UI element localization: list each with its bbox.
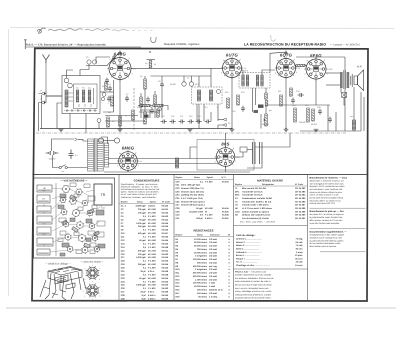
HT bus — [40, 128, 232, 130]
TS primary — [340, 72, 343, 88]
svg-text:vant la longueur de l’aéri: vant la longueur de l’aérien dont vous — [310, 182, 344, 185]
svg-text:5: 5 — [107, 73, 108, 76]
table rule left — [118, 175, 120, 301]
chassis part P5 — [37, 227, 51, 235]
svg-text:pot: pot — [269, 109, 272, 112]
chassis part D3 — [72, 227, 79, 233]
svg-text:CH 04.088: CH 04.088 — [295, 207, 306, 210]
switch contacts row — [66, 110, 96, 112]
chassis part Q13 — [98, 244, 105, 248]
wire MF2 drop 1 — [252, 88, 254, 112]
wire ant return — [41, 95, 43, 129]
wire V4 cathode — [315, 79, 317, 105]
chassis socket S11 — [89, 222, 96, 229]
wire screen row — [105, 120, 145, 122]
svg-text:P 1.500: P 1.500 — [148, 229, 156, 232]
svg-text:05.042: 05.042 — [162, 253, 169, 256]
svg-text:C4: C4 — [108, 83, 110, 86]
svg-text:H.-P. 21 cm excit. 1.800 ohms: H.-P. 21 cm excit. 1.800 ohms — [242, 207, 273, 210]
svg-text:5: 5 — [215, 161, 216, 164]
antenna terminal A — [39, 92, 45, 95]
svg-text:R14: R14 — [292, 104, 295, 107]
svg-text:2x8 µF: 2x8 µF — [196, 217, 203, 220]
svg-text:Bloc accord OC-PO-GO: Bloc accord OC-PO-GO — [242, 187, 266, 190]
table rule 4 — [307, 175, 309, 301]
svg-text:35 corr.: 35 corr. — [295, 257, 303, 260]
svg-text:CAD: CAD — [235, 210, 240, 213]
resistor R13 volume — [265, 114, 268, 126]
svg-text:3: 3 — [129, 57, 130, 60]
svg-text:25 µF: 25 µF — [140, 291, 146, 294]
svg-text:1 watt: 1 watt — [209, 285, 215, 288]
svg-text:V5: V5 — [140, 160, 142, 163]
svg-text:CH 04.087: CH 04.087 — [295, 204, 306, 207]
svg-text:Repère: Repère — [121, 200, 129, 203]
wire plate line — [131, 67, 223, 69]
band switch dashes — [64, 110, 97, 112]
svg-text:CH 04.089: CH 04.089 — [295, 210, 306, 213]
svg-text:3: 3 — [135, 151, 136, 154]
svg-text:dition phono, ramener le C: dition phono, ramener le CV au mini- — [310, 219, 344, 222]
page top edge — [10, 27, 394, 30]
svg-text:M 1.500: M 1.500 — [148, 232, 157, 235]
svg-text:5.000 µµF: 5.000 µµF — [136, 256, 146, 259]
svg-text:05.048: 05.048 — [162, 273, 169, 276]
wire V1 cathode drop — [119, 80, 121, 129]
chassis part Q11 — [97, 221, 105, 226]
wire r17 out — [163, 106, 168, 111]
wire rect output — [235, 152, 243, 157]
svg-text:05.044: 05.044 — [222, 207, 229, 210]
svg-text:Coût du câblage :: Coût du câblage : — [236, 234, 256, 237]
capacitor C4 — [108, 86, 112, 92]
chassis socket S12 — [64, 233, 71, 241]
junction — [119, 128, 120, 129]
svg-text:05.042: 05.042 — [162, 211, 169, 214]
svg-text:padding PO-GO s/bloc: padding PO-GO s/bloc — [181, 194, 205, 197]
svg-text:C15: C15 — [241, 91, 244, 94]
resistor R24 — [296, 64, 305, 66]
svg-text:Antenne 1 ....................: Antenne 1 ........................ — [236, 238, 262, 241]
wire MF1 avc tap — [217, 104, 219, 121]
chassis part Q22 — [86, 238, 91, 242]
svg-text:1/2 watt: 1/2 watt — [209, 268, 217, 271]
svg-text:M: M — [205, 210, 207, 213]
wire field coil lead — [353, 87, 355, 120]
svg-text:05.048: 05.048 — [222, 214, 229, 217]
wire lamps link — [104, 140, 115, 142]
chassis part Q25 — [60, 253, 65, 256]
svg-text:Spécif.: Spécif. — [150, 200, 157, 203]
svg-text:C10: C10 — [171, 115, 174, 118]
chassis part P6 — [37, 238, 53, 246]
chassis part D2 — [88, 209, 95, 214]
table rule 2 — [173, 175, 175, 301]
svg-text:05.049: 05.049 — [162, 270, 169, 273]
svg-text:TR: TR — [101, 193, 106, 197]
svg-text:10 volt.: 10 volt. — [296, 261, 304, 264]
svg-text:P 1.500: P 1.500 — [148, 215, 156, 218]
svg-text:M 1.500: M 1.500 — [148, 256, 157, 259]
junction — [285, 128, 286, 129]
svg-text:TA: TA — [235, 200, 238, 203]
resistor R19 — [312, 109, 315, 121]
wire heater line 1 — [108, 158, 218, 160]
wire coil to bus — [69, 114, 71, 129]
svg-text:R15: R15 — [305, 104, 308, 107]
wire B+ top — [296, 56, 345, 58]
rule under note3 — [320, 251, 366, 253]
wire osc link — [139, 111, 160, 113]
svg-text:atten. 490 µµF (C1): atten. 490 µµF (C1) — [181, 184, 200, 187]
svg-text:Spécif.: Spécif. — [207, 176, 214, 179]
wire V3 drop — [285, 78, 287, 129]
svg-text:1/2 watt: 1/2 watt — [209, 241, 217, 244]
svg-text:6U7G: 6U7G — [226, 52, 239, 57]
svg-text:CH 04.083: CH 04.083 — [295, 190, 306, 193]
svg-text:N° Code: N° Code — [162, 200, 171, 203]
svg-text:CV: CV — [42, 198, 46, 201]
svg-text:V6: V6 — [237, 156, 239, 159]
switch Int — [59, 165, 67, 169]
svg-text:1/2 watt: 1/2 watt — [209, 255, 217, 258]
coil L2b winding — [82, 90, 85, 102]
chassis part Q16 — [58, 205, 64, 209]
chassis part P2 — [37, 195, 50, 203]
svg-text:4: 4 — [296, 71, 297, 74]
coil field coil — [352, 120, 355, 130]
svg-text:4 amp.: 4 amp. — [296, 251, 303, 254]
wire coil to chassis — [85, 114, 87, 134]
ground — [230, 129, 235, 131]
svg-text:5.000 µµF: 5.000 µµF — [136, 284, 146, 287]
wire B+ right — [344, 57, 346, 131]
svg-text:50 µµF: 50 µµF — [139, 218, 146, 221]
svg-text:C16: C16 — [232, 110, 235, 113]
svg-text:de nos services techniques: de nos services techniques contre — [310, 242, 342, 245]
svg-text:M 1.500: M 1.500 — [148, 211, 157, 214]
svg-text:CAD: CAD — [101, 207, 106, 210]
chassis part P7 — [37, 249, 50, 255]
svg-text:trimmer 3/30 (bloc T1): trimmer 3/30 (bloc T1) — [181, 187, 204, 190]
resistor R12 — [290, 88, 293, 97]
wire grid return — [103, 80, 114, 112]
svg-text:Valeur: Valeur — [137, 200, 143, 203]
svg-text:8 µF: 8 µF — [142, 294, 147, 297]
svg-text:p: p — [102, 291, 103, 293]
chassis socket S1 — [62, 185, 71, 193]
wire choke out — [247, 149, 253, 151]
wire r22 top — [140, 93, 142, 97]
resistor R16 — [140, 104, 150, 106]
page left edge — [8, 29, 10, 296]
ground — [118, 129, 123, 131]
svg-text:05.045: 05.045 — [162, 256, 169, 259]
svg-text:quées. Toutes les valeurs sont: quées. Toutes les valeurs sont données — [121, 191, 159, 194]
svg-text:1/2 watt: 1/2 watt — [209, 248, 217, 251]
svg-text:05.044: 05.044 — [162, 239, 169, 242]
capacitor C18 — [291, 98, 295, 104]
capacitor C27 — [150, 108, 154, 114]
svg-text:Repère: Repère — [235, 183, 243, 186]
svg-text:Masse 3 ......................: Masse 3 ........................ — [236, 244, 260, 247]
svg-text:8: 8 — [307, 60, 308, 63]
svg-text:05.045: 05.045 — [162, 284, 169, 287]
svg-text:05.043: 05.043 — [162, 236, 169, 239]
junction T — [44, 102, 45, 103]
wire r23 top — [154, 91, 156, 95]
svg-text:E 550 v.: E 550 v. — [205, 217, 213, 220]
wire field tail — [353, 130, 355, 131]
IF transformer MF1 — [192, 87, 223, 104]
wire r20-r21 — [265, 99, 267, 101]
svg-text:R11: R11 — [278, 90, 281, 93]
chassis part P4 — [37, 216, 52, 224]
wire V6 to return — [225, 166, 227, 172]
svg-text:Valeur: Valeur — [197, 233, 203, 236]
svg-text:T1: T1 — [43, 244, 45, 247]
svg-text:Spécifications : P, papier, au: Spécifications : P, papier, aux tensions — [121, 183, 158, 186]
svg-text:— Lampes — N° 3/DV/7L0: — Lampes — N° 3/DV/7L0 — [330, 43, 361, 46]
svg-text:Maquette CHAREL, Ingénieur: Maquette CHAREL, Ingénieur — [164, 43, 200, 46]
power transformer TA core — [95, 138, 96, 172]
svg-text:0,1 P 1.500 (par. C14): 0,1 P 1.500 (par. C14) — [181, 197, 203, 200]
svg-text:05.043: 05.043 — [162, 287, 169, 290]
resistor R3 — [132, 110, 135, 120]
trimmer CT7 — [182, 82, 186, 86]
chassis socket S6 — [60, 208, 68, 215]
coil MF1 primary — [197, 90, 200, 101]
svg-text:CH 04.082: CH 04.082 — [295, 187, 306, 190]
svg-text:C11: C11 — [180, 115, 183, 118]
svg-text:R4: R4 — [145, 62, 147, 65]
svg-text:3: 3 — [233, 147, 234, 150]
svg-text:100 µµF: 100 µµF — [138, 211, 147, 214]
wire top cap V1 — [119, 51, 121, 55]
svg-text:MF2: MF2 — [42, 233, 46, 236]
svg-text:CONDENSATEURS: CONDENSATEURS — [134, 178, 160, 182]
wire MF2 in — [242, 70, 244, 75]
chassis part D4 — [62, 220, 68, 225]
svg-text:4: 4 — [132, 73, 133, 76]
junction — [231, 128, 232, 129]
svg-text:2 mégohms: 2 mégohms — [195, 268, 208, 271]
socket view V6 culot — [86, 284, 100, 298]
tube V2 6U7G — [221, 52, 246, 79]
svg-text:C14: C14 — [204, 106, 207, 109]
PU jack 2 — [223, 124, 226, 127]
chassis line — [36, 132, 346, 134]
svg-text:3: 3 — [294, 58, 295, 61]
resistor R15 — [307, 108, 310, 122]
wave trap L3 — [86, 60, 98, 66]
svg-text:100 µµF: 100 µµF — [138, 253, 147, 256]
wire TS low — [326, 84, 340, 86]
wire r24 to v4 — [305, 65, 307, 67]
svg-text:1/2 watt: 1/2 watt — [209, 261, 217, 264]
wire MF1 return — [203, 104, 205, 121]
svg-text:— VUE INTÉRIEURE —: — VUE INTÉRIEURE — — [60, 179, 88, 183]
dial lamp LP2 — [114, 138, 119, 143]
chassis part P1 — [37, 185, 52, 192]
wire antenna lead — [44, 91, 46, 94]
svg-text:MF1: MF1 — [195, 83, 199, 86]
svg-text:6M6G: 6M6G — [122, 146, 135, 151]
svg-text:110/220: 110/220 — [49, 158, 56, 161]
chassis socket S13 — [78, 234, 86, 243]
svg-text:05.040: 05.040 — [162, 205, 169, 208]
svg-text:P 1.500: P 1.500 — [205, 214, 213, 217]
wire heater drop — [190, 147, 197, 159]
svg-text:05.047: 05.047 — [162, 232, 169, 235]
svg-text:400 ohms: 400 ohms — [197, 289, 208, 292]
chassis part Q19 — [70, 218, 75, 222]
svg-text:300 ohms: 300 ohms — [197, 261, 208, 264]
svg-text:ANT.2, et reliez la borne: ANT.2, et reliez la borne T à une — [310, 194, 340, 197]
wire ct1 top — [67, 70, 74, 78]
capacitor C5 — [107, 96, 111, 102]
svg-text:trimmer MF1 (2x ajust.): trimmer MF1 (2x ajust.) — [181, 200, 205, 203]
svg-text:W: W — [228, 233, 230, 236]
TA primary winding — [88, 139, 94, 171]
resistor R7 — [119, 116, 122, 126]
R4 top bar — [147, 59, 156, 61]
resistor R10 — [227, 98, 230, 108]
diode load blob — [258, 105, 264, 108]
svg-text:P 1.500: P 1.500 — [148, 260, 156, 263]
resistor R23 — [154, 95, 157, 104]
svg-text:M 1.500: M 1.500 — [148, 263, 157, 266]
svg-text:8 µF: 8 µF — [142, 297, 147, 300]
capacitor C20 — [318, 109, 322, 115]
capacitor C14b — [205, 120, 211, 124]
chassis part Q14 — [70, 183, 76, 187]
wire trap tap — [80, 64, 89, 75]
svg-text:les prises PU. Le volume: les prises PU. Le volume se règle par — [310, 213, 344, 216]
svg-text:Repère: Repère — [176, 176, 184, 179]
svg-text:N° Code: N° Code — [295, 183, 304, 186]
pot wiper — [263, 119, 265, 121]
svg-text:Transfo MF 472 kc/s: Transfo MF 472 kc/s — [242, 190, 263, 193]
svg-text:30 ohms: 30 ohms — [198, 295, 208, 298]
svg-text:CH 04.084: CH 04.084 — [295, 194, 306, 197]
wire ct7 lead — [183, 76, 185, 82]
chassis socket S2 — [75, 188, 83, 195]
svg-text:C12: C12 — [189, 115, 192, 118]
wire spk return 2 — [363, 97, 365, 131]
svg-text:Int.: Int. — [62, 170, 65, 173]
svg-text:8: 8 — [217, 148, 218, 151]
svg-text:Documentation supplémentaire.: Documentation supplémentaire. — — [310, 231, 348, 234]
top cap V1 — [119, 52, 121, 54]
chassis part Q9 — [74, 194, 79, 197]
chassis wiring lines — [50, 188, 103, 252]
svg-text:bobinée 10 w.: bobinée 10 w. — [209, 289, 223, 292]
svg-text:150 ohms: 150 ohms — [197, 292, 208, 295]
resistor R11 — [280, 95, 283, 106]
wire TS tail — [340, 88, 342, 93]
chassis socket S9 — [63, 220, 70, 227]
tone cap C30 — [342, 93, 347, 98]
chassis socket S15 — [66, 245, 73, 253]
tube V5 6M6G — [117, 146, 142, 172]
svg-text:13 pièc.: 13 pièc. — [295, 254, 303, 257]
coil MF2 secondary b — [261, 75, 263, 86]
svg-text:R8: R8 — [150, 106, 152, 109]
capacitor C9 padder — [161, 120, 167, 124]
TA secondary winding — [97, 139, 103, 171]
svg-text:05.041: 05.041 — [162, 249, 169, 252]
resistor R21 — [265, 101, 268, 107]
svg-text:Condensateur variable 2x490: Condensateur variable 2x490 — [242, 197, 273, 200]
chassis socket S7 — [72, 209, 81, 218]
wire padder feed — [140, 110, 150, 118]
rule above tables — [32, 174, 367, 176]
wire heater line 2 — [108, 163, 218, 165]
svg-text:MATÉRIEL DIVERS: MATÉRIEL DIVERS — [257, 179, 283, 183]
svg-text:250 µµF: 250 µµF — [138, 263, 147, 266]
svg-text:8: 8 — [277, 59, 278, 62]
svg-text:aux adresses habituelles. Préc: aux adresses habituelles. Préciser lors … — [235, 277, 274, 280]
capacitor C8 — [160, 82, 164, 88]
svg-text:50.000 ohms: 50.000 ohms — [194, 285, 208, 288]
svg-text:bonne prise de terre (cond: bonne prise de terre (conduite d’eau). — [310, 197, 345, 200]
svg-text:8: 8 — [110, 58, 111, 61]
chassis socket S4 — [69, 197, 78, 205]
svg-text:R6: R6 — [108, 111, 110, 114]
svg-text:Valeur: Valeur — [194, 176, 200, 179]
svg-text:CH 04.090: CH 04.090 — [295, 214, 306, 217]
rectifier cage box — [197, 140, 254, 171]
wire AVC feed — [100, 91, 114, 93]
svg-text:200 µµF: 200 µµF — [138, 208, 147, 211]
svg-text:Retour 2 .....................: Retour 2 ........................ — [236, 241, 261, 244]
svg-text:100.000 ohms: 100.000 ohms — [193, 282, 208, 285]
wire filter return — [247, 164, 262, 168]
wire MF1 bottom — [196, 104, 198, 121]
antenna — [43, 55, 50, 92]
svg-text:05.044: 05.044 — [162, 277, 169, 280]
handwritten note — [37, 28, 156, 43]
svg-text:trimmer MF2 (2x ajust.): trimmer MF2 (2x ajust.) — [181, 204, 205, 207]
trimmer CT5 — [102, 93, 106, 97]
wire out stage drop 2 — [335, 112, 337, 131]
svg-text:M 1.500: M 1.500 — [148, 225, 157, 228]
pen mark — [271, 35, 276, 41]
band coil unit T1 box — [62, 76, 100, 114]
coil taps — [68, 93, 91, 107]
svg-text:trochimique aux tensions de se: trochimique aux tensions de service indi… — [121, 188, 160, 191]
svg-text:425 µµF: 425 µµF — [138, 232, 147, 235]
capacitor C11 padder — [179, 120, 185, 124]
svg-text:M 1.500: M 1.500 — [205, 207, 214, 210]
svg-text:Châssis tôle cadmiée percé: Châssis tôle cadmiée percé — [242, 214, 271, 217]
svg-text:E 550 v.: E 550 v. — [148, 294, 156, 297]
socket pin labels — [83, 264, 103, 301]
chassis socket S3 — [59, 197, 66, 204]
svg-text:MF1: MF1 — [42, 223, 46, 226]
wire screen link — [151, 75, 212, 77]
svg-text:05.041: 05.041 — [162, 208, 169, 211]
svg-text:en µF, sauf celles suivies de: en µF, sauf celles suivies de µµF (pF). — [121, 193, 158, 196]
svg-text:E 25 v.: E 25 v. — [148, 291, 155, 294]
svg-text:2 mégohms: 2 mégohms — [195, 255, 208, 258]
svg-text:250.000 ohms: 250.000 ohms — [193, 272, 208, 275]
ground — [314, 129, 319, 131]
chassis part Q20 — [58, 238, 63, 242]
resistor R6 — [107, 117, 110, 127]
table rule 3 — [233, 175, 235, 301]
